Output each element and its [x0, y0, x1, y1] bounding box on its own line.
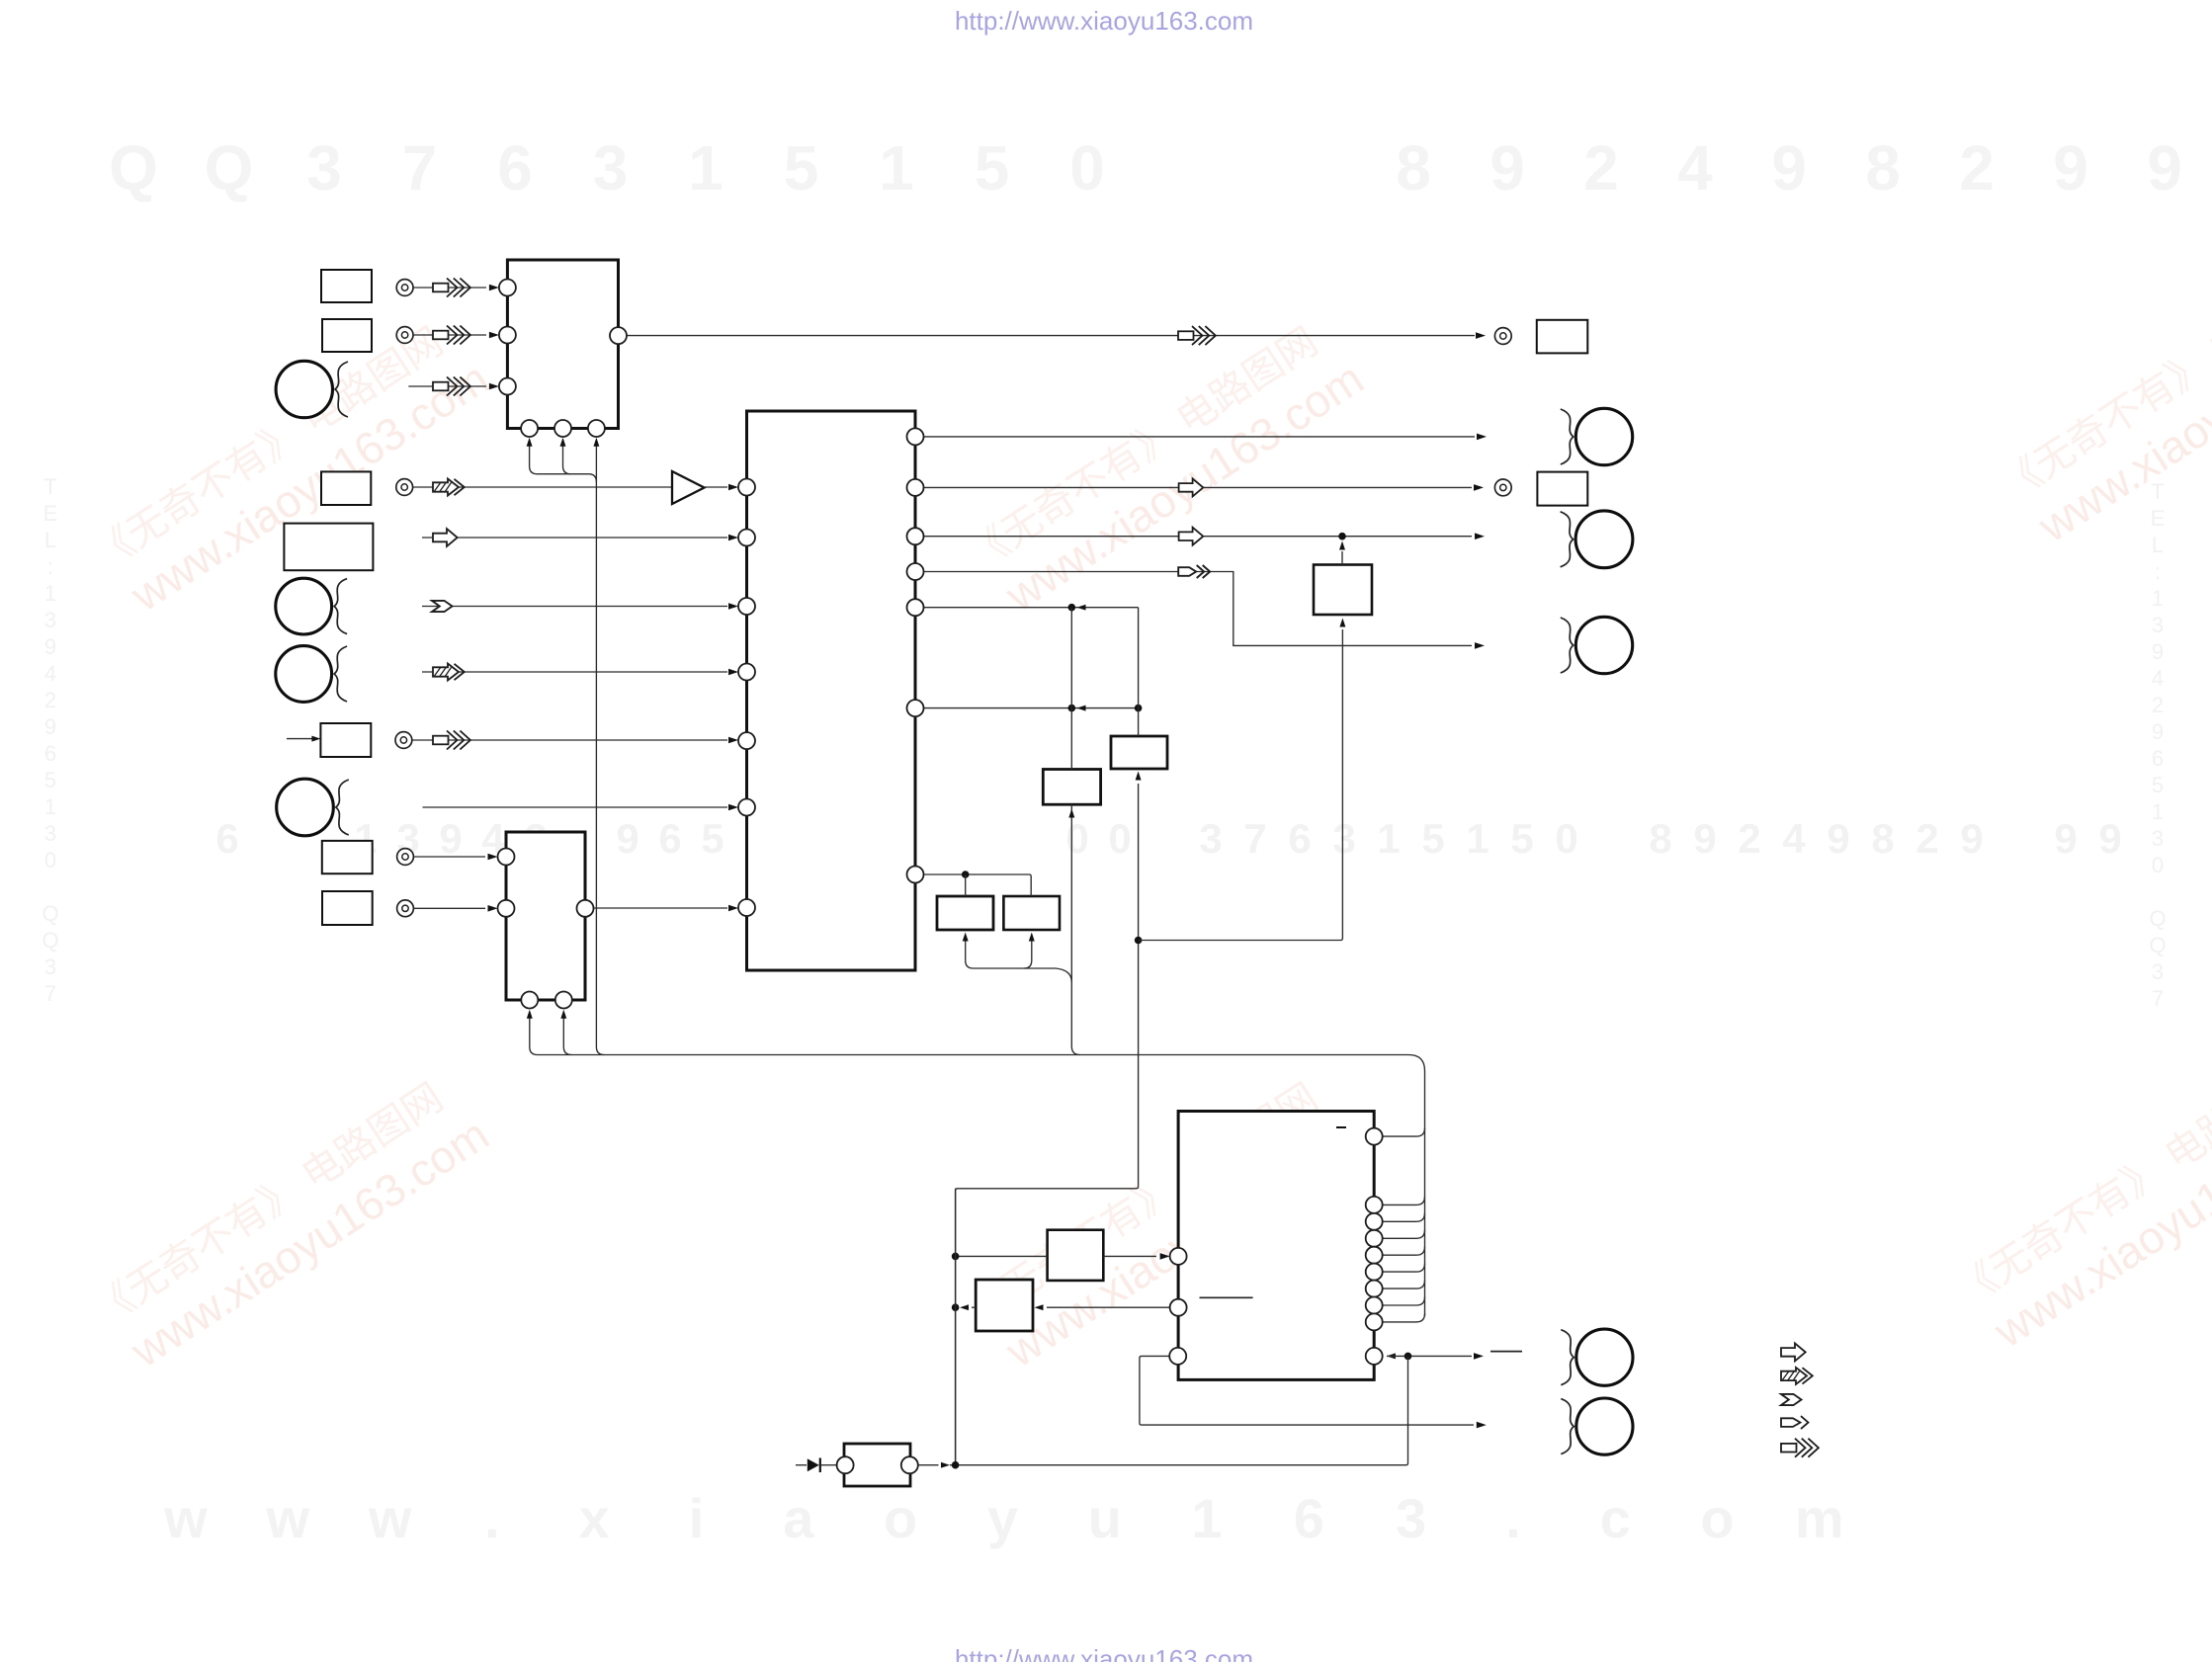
legend arrow single-chevron [1781, 1416, 1809, 1429]
wire S1 top to y543 junction [1341, 551, 1343, 565]
svg-text:3: 3 [2152, 826, 2164, 851]
svg-text:9: 9 [2098, 815, 2121, 862]
wire out y543 to circle B [924, 536, 1473, 538]
svg-text:3: 3 [1199, 815, 1222, 862]
wire row F to IC2 pin3 [422, 606, 727, 608]
svg-text:1: 1 [2152, 799, 2164, 824]
IC3 text remnant dash [1336, 1126, 1346, 1128]
svg-text:Q: Q [2149, 933, 2166, 957]
svg-text:2: 2 [1583, 132, 1619, 204]
svg-text:9: 9 [616, 815, 638, 862]
svg-text:E: E [43, 501, 58, 526]
jack J5 (row J) [397, 849, 414, 866]
svg-text:9: 9 [1827, 815, 1849, 862]
bottom feedback wire to IC3 [918, 1464, 939, 1466]
wire IC1 bottom pins bus [530, 443, 597, 482]
wire out y885 to B6 B7 [924, 874, 1032, 896]
svg-text:6: 6 [1288, 815, 1311, 862]
wire row C to IC1 pin [408, 385, 486, 387]
svg-text:4: 4 [44, 661, 56, 686]
svg-text:L: L [2152, 533, 2164, 557]
svg-text:6: 6 [658, 815, 681, 862]
svg-text:5: 5 [701, 815, 723, 862]
svg-text:w: w [266, 1487, 310, 1549]
small box B8 (near IC3) [1048, 1230, 1104, 1281]
wire junction to B8 to IC3 pin L1 [956, 1255, 1048, 1257]
svg-text:Q: Q [42, 928, 58, 953]
svg-text:9: 9 [1771, 132, 1807, 204]
connector plug circle (row C source) [276, 361, 332, 417]
svg-text:Q: Q [205, 132, 254, 204]
diode D1 [796, 1464, 807, 1466]
svg-text:c: c [1600, 1487, 1631, 1549]
svg-text:3: 3 [2152, 959, 2164, 984]
small box B7 [1003, 896, 1060, 930]
svg-text:1: 1 [44, 581, 56, 606]
small box S1 (mute) [1314, 565, 1372, 616]
svg-text:5: 5 [975, 132, 1010, 204]
wire row J to IC4 pin1 [413, 856, 485, 858]
svg-text:7: 7 [44, 981, 56, 1006]
jack R1 (top) [1494, 328, 1511, 345]
input source box (row A) [321, 270, 372, 302]
svg-text:3: 3 [44, 821, 56, 846]
IC2 left pins [738, 479, 755, 496]
svg-text:4: 4 [2152, 666, 2164, 691]
svg-text:6: 6 [497, 132, 533, 204]
svg-text:4: 4 [1782, 815, 1806, 862]
svg-text:o: o [1700, 1487, 1734, 1549]
svg-text:0: 0 [1069, 132, 1105, 204]
svg-text:.: . [1505, 1487, 1521, 1549]
svg-text:9: 9 [1960, 815, 1983, 862]
watermark pink diagonal tiles [86, 310, 497, 626]
svg-text:2: 2 [44, 688, 56, 712]
svg-text:Q: Q [2149, 906, 2166, 931]
small box B6 [937, 896, 993, 930]
connector plug circle (row F source) [276, 578, 332, 634]
svg-text:9: 9 [2152, 639, 2164, 664]
wire into row H box [287, 738, 312, 740]
svg-text:m: m [1795, 1487, 1844, 1549]
output box R2 [1537, 472, 1587, 506]
svg-text:0: 0 [1065, 815, 1088, 862]
phone circle C [1561, 618, 1574, 673]
svg-text:3: 3 [44, 955, 56, 979]
wire IC4 right pin to IC2 pin7 [594, 907, 728, 909]
wire out y442 to phone circle A [924, 436, 1476, 438]
label dash near circle D [1490, 1351, 1522, 1353]
svg-text:3: 3 [1396, 1487, 1426, 1549]
wire row A to IC1 pin [413, 287, 486, 289]
svg-text:7: 7 [2152, 986, 2164, 1011]
svg-text:6: 6 [44, 741, 56, 766]
vertical wire x1084 through B5 [1070, 608, 1072, 770]
wire IC1 out to jack R1 [627, 335, 1475, 337]
svg-text:1: 1 [1466, 815, 1489, 862]
input source box (row K) [322, 891, 373, 925]
svg-text:9: 9 [2054, 815, 2077, 862]
wire out y578 bent to circle C [924, 572, 1473, 646]
wire IC3 pin L2 to B9 to bus [1047, 1306, 1170, 1308]
svg-text:2: 2 [1915, 815, 1938, 862]
svg-text:T: T [43, 474, 56, 499]
svg-text:5: 5 [2152, 773, 2164, 797]
svg-text:1: 1 [1377, 815, 1400, 862]
svg-text:9: 9 [1489, 132, 1525, 204]
input source box (row H) [320, 723, 371, 757]
svg-text:0: 0 [44, 848, 56, 873]
svg-text::: : [2155, 559, 2161, 584]
svg-text:1: 1 [879, 132, 914, 204]
svg-text:i: i [689, 1487, 705, 1549]
small box B5 [1043, 770, 1100, 805]
wire row B to IC1 pin [413, 334, 486, 336]
svg-text:3: 3 [44, 608, 56, 632]
svg-text:Q: Q [109, 132, 158, 204]
svg-text:1: 1 [44, 794, 56, 819]
IC3 block (bottom-right) [1178, 1112, 1374, 1380]
phone circle E [1561, 1399, 1574, 1454]
svg-text:a: a [783, 1487, 814, 1549]
svg-text:6: 6 [2152, 746, 2164, 771]
svg-text:u: u [1088, 1487, 1122, 1549]
small box B9 (near IC3) [976, 1280, 1033, 1331]
input source box (row B) [322, 319, 372, 352]
legend arrow chevron [1781, 1394, 1802, 1405]
svg-text:9: 9 [1693, 815, 1716, 862]
legend arrow hatched [1781, 1368, 1813, 1384]
jack J1 (row A) [396, 280, 413, 296]
svg-text:2: 2 [1959, 132, 1995, 204]
svg-text:3: 3 [1332, 815, 1355, 862]
svg-text:http://www.xiaoyu163.com: http://www.xiaoyu163.com [955, 6, 1253, 36]
svg-text:7: 7 [1243, 815, 1266, 862]
resonator box X1 [821, 1464, 837, 1466]
svg-text:5: 5 [44, 768, 56, 792]
wire B6 B7 bottom feed [966, 960, 1072, 982]
phone circle A [1561, 409, 1574, 464]
svg-text:1: 1 [1191, 1487, 1222, 1549]
bottom bus wire to IC3 pin column [530, 1014, 1425, 1316]
IC4 pins [498, 849, 515, 866]
output box R1 [1537, 320, 1588, 354]
jack R2 [1494, 479, 1511, 496]
svg-text:4: 4 [1677, 132, 1713, 204]
svg-text:5: 5 [784, 132, 819, 204]
svg-text:w: w [368, 1487, 412, 1549]
wire out y614 to vertical bus [924, 607, 1139, 609]
IC4 bottom pin2 branch [563, 1014, 571, 1055]
svg-text:8: 8 [1865, 132, 1901, 204]
input source box wide (row E) [284, 524, 373, 571]
wire row H to IC2 pin5 [412, 739, 727, 741]
vertical wire x1151 through B4 [1138, 608, 1140, 736]
svg-text:9: 9 [2152, 719, 2164, 744]
wire junction to S1 bottom [1139, 629, 1343, 941]
wire row I to IC2 pin6 [423, 806, 728, 808]
jack J3 (row D) [396, 479, 413, 496]
svg-text:9: 9 [439, 815, 462, 862]
small box B4 [1111, 736, 1167, 769]
connector plug circle (row G source) [276, 646, 332, 703]
svg-text:y: y [987, 1487, 1018, 1549]
svg-text:1: 1 [2152, 586, 2164, 611]
svg-text:1: 1 [688, 132, 723, 204]
svg-text:8: 8 [1649, 815, 1671, 862]
input source box (row D) [321, 471, 371, 505]
jack J6 (row K) [397, 900, 414, 917]
svg-text:.: . [484, 1487, 500, 1549]
legend arrow triple-chevron [1781, 1439, 1819, 1457]
IC2 right pins [907, 428, 924, 445]
IC3 pins [1170, 1248, 1187, 1265]
IC1 pins [499, 280, 516, 296]
svg-text:3: 3 [2152, 613, 2164, 637]
vertical feedback wire x966 [955, 1189, 957, 1465]
wire out y717 [924, 707, 1139, 709]
long control bus wire (IC1 down to bottom bus) [596, 443, 604, 1055]
IC4 block (sub lower-left) [506, 832, 585, 1000]
svg-text:5: 5 [1510, 815, 1533, 862]
svg-text:9: 9 [44, 714, 56, 739]
svg-text:9: 9 [2147, 132, 2182, 204]
svg-text:6: 6 [1294, 1487, 1324, 1549]
wire row G to IC2 pin4 [422, 671, 727, 673]
svg-text:o: o [884, 1487, 917, 1549]
buffer amp U3 [672, 471, 705, 504]
svg-text:2: 2 [2152, 693, 2164, 717]
resonator pins [837, 1456, 854, 1473]
svg-text:5: 5 [1421, 815, 1444, 862]
svg-text:3: 3 [306, 132, 342, 204]
svg-text::: : [47, 554, 53, 579]
svg-text:Q: Q [42, 901, 58, 926]
svg-text:8: 8 [1871, 815, 1894, 862]
phone circle D [1561, 1330, 1574, 1385]
svg-text:9: 9 [2053, 132, 2088, 204]
IC1 block (top-left) [507, 260, 618, 429]
wire row K to IC4 pin2 [413, 907, 485, 909]
IC3 right pin stub wires to bus [1383, 1128, 1425, 1137]
svg-text:0: 0 [1555, 815, 1577, 862]
jack J2 (row B) [396, 327, 413, 344]
svg-text:8: 8 [1396, 132, 1431, 204]
svg-text:0: 0 [1108, 815, 1131, 862]
svg-text:http://www.xiaoyu163.com: http://www.xiaoyu163.com [955, 1644, 1253, 1662]
svg-text:7: 7 [402, 132, 438, 204]
wire IC3 bottom-right pin to circle D [1387, 1353, 1396, 1359]
IC2 main block [747, 411, 916, 970]
input source box (row J) [322, 841, 373, 873]
connector plug circle (row I source) [277, 779, 334, 836]
svg-text:2: 2 [1738, 815, 1760, 862]
svg-text:x: x [579, 1487, 610, 1549]
svg-text:w: w [163, 1487, 208, 1549]
wire out y493 to jack R2 [924, 486, 1473, 488]
jack J4 (row H) [395, 732, 412, 749]
wire row D jack to buffer [413, 486, 672, 488]
legend arrow plain [1781, 1343, 1806, 1361]
wire buffer to IC2 pin1 [705, 486, 728, 488]
phone circle B [1561, 512, 1574, 567]
svg-text:0: 0 [2152, 853, 2164, 877]
wire row E to IC2 pin2 [422, 537, 727, 539]
svg-text:9: 9 [44, 634, 56, 659]
IC3 inner text underline remnant [1200, 1296, 1253, 1298]
svg-text:L: L [44, 528, 56, 552]
svg-text:6: 6 [215, 815, 238, 862]
svg-text:3: 3 [593, 132, 629, 204]
svg-text:E: E [2151, 506, 2166, 531]
wire IC3 bottom-left pin to circle E [1140, 1356, 1474, 1425]
